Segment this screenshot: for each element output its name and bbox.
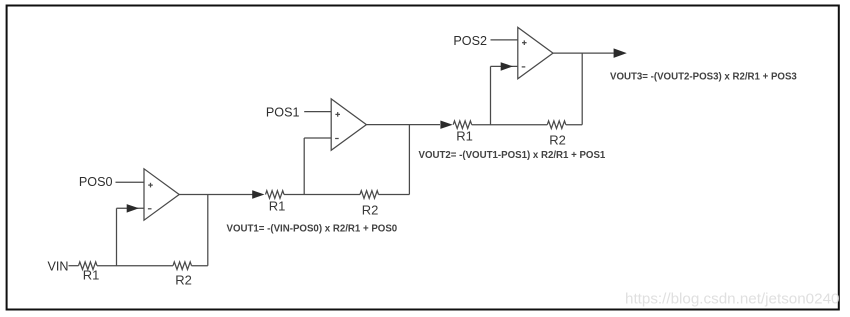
svg-text:R1: R1 (269, 199, 286, 214)
svg-text:R2: R2 (549, 133, 566, 148)
svg-text:R2: R2 (362, 202, 379, 217)
svg-text:VIN: VIN (48, 259, 69, 273)
svg-text:https://blog.csdn.net/jetson02: https://blog.csdn.net/jetson0240 (625, 291, 839, 308)
svg-text:POS1: POS1 (266, 105, 300, 119)
svg-text:VOUT3= -(VOUT2-POS3) x R2/R1 +: VOUT3= -(VOUT2-POS3) x R2/R1 + POS3 (610, 72, 797, 83)
svg-text:R1: R1 (456, 128, 473, 143)
svg-text:POS0: POS0 (79, 175, 113, 189)
svg-text:VOUT2= -(VOUT1-POS1) x R2/R1 +: VOUT2= -(VOUT1-POS1) x R2/R1 + POS1 (419, 150, 606, 161)
svg-text:R1: R1 (83, 268, 100, 283)
svg-text:POS2: POS2 (453, 34, 487, 48)
svg-text:VOUT1= -(VIN-POS0) x R2/R1 +: VOUT1= -(VIN-POS0) x R2/R1 + POS0 (227, 224, 398, 235)
svg-text:R2: R2 (175, 272, 192, 287)
